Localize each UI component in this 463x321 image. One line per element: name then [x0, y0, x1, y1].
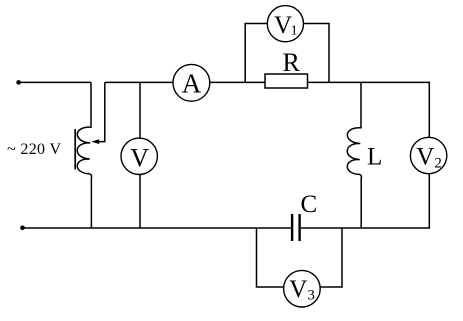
wire: V2 branch lower lead	[428, 174, 430, 229]
wire: tap lead to top rail	[99, 82, 105, 141]
voltmeter V2 body	[410, 137, 446, 173]
capacitor C left plate	[291, 214, 293, 241]
svg-text:L: L	[367, 144, 382, 171]
node: top-left source terminal dot	[16, 80, 21, 85]
inductor L	[347, 82, 361, 228]
ammeter A body	[173, 64, 210, 101]
wire: V3 loop right drop	[321, 228, 343, 287]
wire: V3 loop left drop	[257, 228, 284, 287]
transformer T1 wiper arrow tap	[91, 139, 99, 144]
wire: V1 loop right riser	[304, 24, 329, 83]
wire: V2 branch upper lead	[428, 82, 430, 138]
svg-text:A: A	[182, 68, 202, 98]
voltmeter V1 body	[267, 6, 303, 42]
wire: top rail from resistor past L to V2 corner	[308, 81, 430, 83]
wire: top rail from ammeter to V1 junction and resistor	[210, 81, 265, 83]
capacitor C right plate	[298, 214, 300, 241]
wire: voltmeter V branch upper lead	[139, 82, 141, 137]
wire: bottom rail from capacitor to V2 corner	[301, 227, 430, 229]
wire: V1 loop left riser	[245, 24, 267, 83]
node: bottom-left source terminal dot	[20, 226, 25, 231]
voltmeter V3 body	[284, 270, 321, 307]
resistor R body	[265, 74, 308, 88]
transformer T1 core bar	[74, 129, 76, 170]
svg-text:R: R	[283, 48, 301, 77]
transformer T1 primary winding (variac coil)	[77, 82, 91, 228]
svg-text:C: C	[301, 191, 318, 218]
wire: top rail from source terminal to transformer primary	[19, 81, 91, 83]
voltmeter V body	[121, 138, 157, 174]
wire: bottom rail from source terminal to capacitor	[23, 227, 291, 229]
svg-text:~ 220 V: ~ 220 V	[7, 141, 61, 158]
svg-text:V: V	[130, 144, 149, 173]
wire: voltmeter V branch lower lead	[139, 175, 141, 228]
wire: top rail from tap riser to ammeter	[105, 81, 173, 83]
